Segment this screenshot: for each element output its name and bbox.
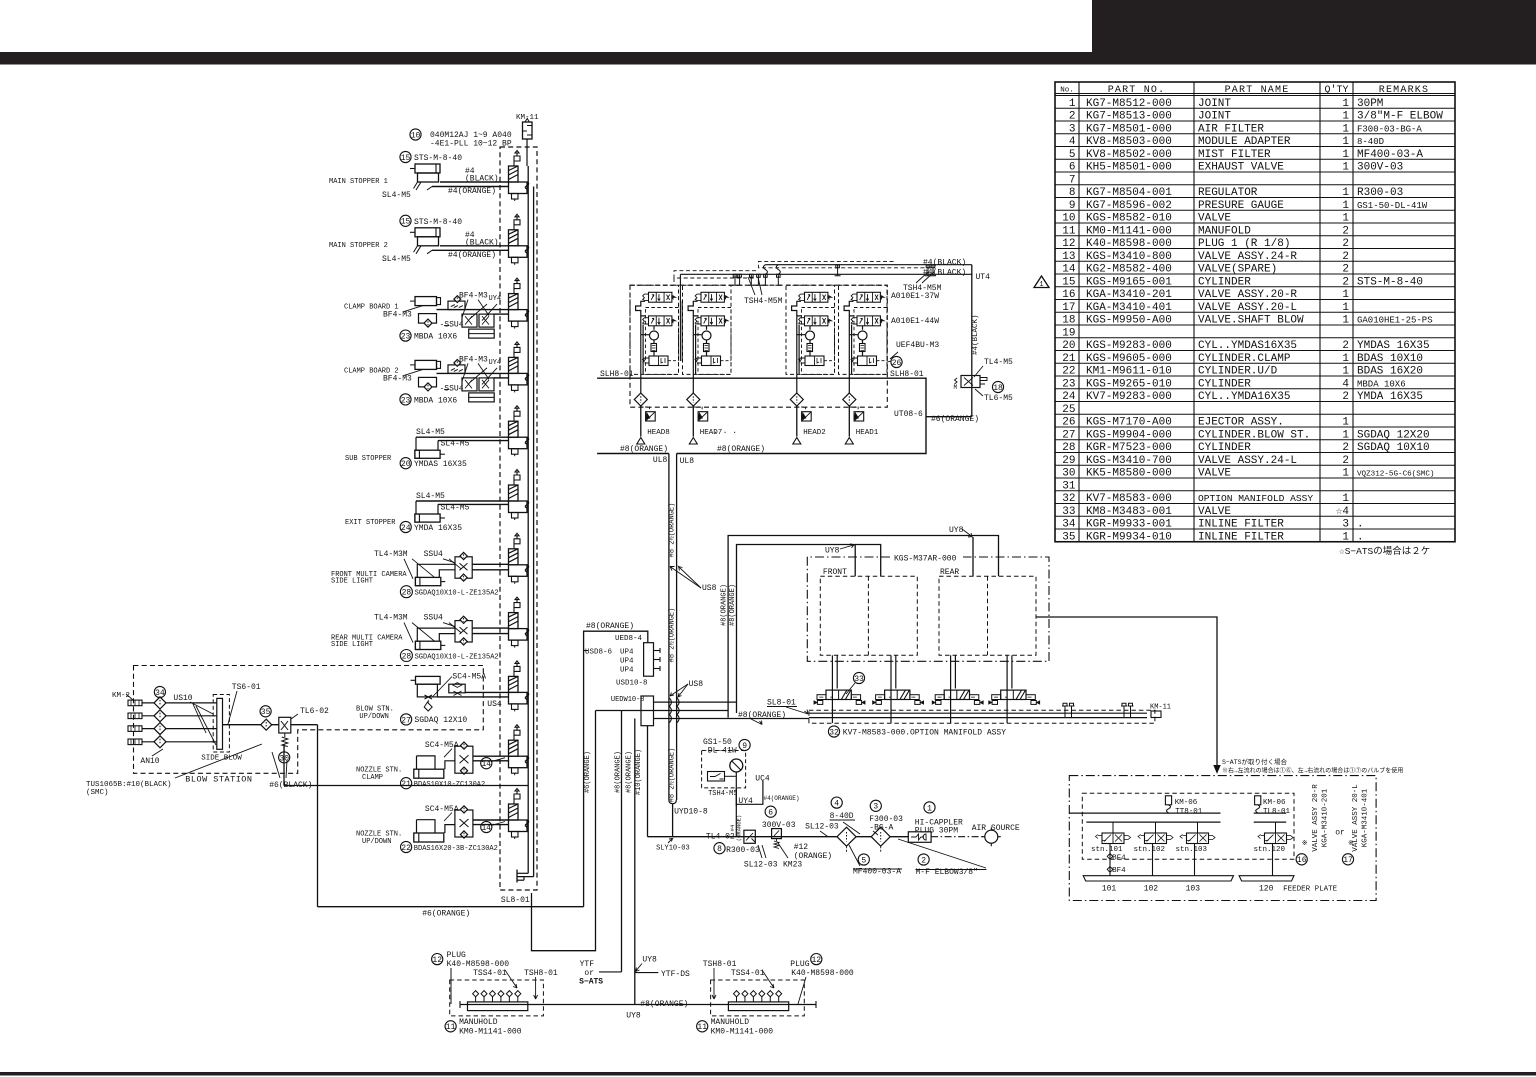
- svg-text:MANUHOLD: MANUHOLD: [711, 1018, 750, 1027]
- svg-text:REMARKS: REMARKS: [1379, 85, 1429, 96]
- manifold stud 1: [475, 997, 477, 1002]
- stn.101 drop: [1109, 844, 1111, 876]
- svg-text:#4(BLACK): #4(BLACK): [923, 259, 966, 268]
- svg-text:UP4: UP4: [620, 666, 634, 674]
- HEAD2 exhaust triangle: [793, 438, 801, 445]
- svg-text:UL8: UL8: [653, 456, 668, 465]
- svg-text:stn.120: stn.120: [1254, 846, 1286, 854]
- svg-text:2: 2: [1342, 455, 1349, 467]
- line manifold to TL6-02: [223, 724, 279, 726]
- svg-text:12: 12: [811, 956, 821, 965]
- svg-text:23: 23: [401, 396, 411, 405]
- svg-text:VALVE: VALVE: [1198, 213, 1231, 225]
- svg-text:4: 4: [834, 799, 839, 808]
- svg-text:KGS-M9165-001: KGS-M9165-001: [1086, 276, 1172, 288]
- svg-text:KK5-M8580-000: KK5-M8580-000: [1086, 468, 1172, 480]
- svg-text:UY4: UY4: [489, 295, 502, 303]
- svg-text:1: 1: [1342, 187, 1349, 199]
- svg-text:1: 1: [1342, 149, 1349, 161]
- svg-text:10: 10: [1062, 213, 1075, 225]
- leader lines: [404, 306, 423, 312]
- svg-text:2: 2: [1342, 391, 1349, 403]
- svg-text:CYLINDER.CLAMP: CYLINDER.CLAMP: [1198, 353, 1291, 365]
- svg-text:KGS-M3410-800: KGS-M3410-800: [1086, 251, 1172, 263]
- svg-text:FEEDER PLATE: FEEDER PLATE: [1283, 886, 1338, 894]
- HEAD8 inner dashed box: [646, 308, 679, 375]
- S-ATS valve stn.103: [1187, 833, 1209, 844]
- manifold stud 6: [778, 997, 780, 1002]
- SSU-type check unit: [455, 810, 473, 837]
- svg-text:OPTION MANIFOLD ASSY: OPTION MANIFOLD ASSY: [1198, 493, 1313, 504]
- svg-text:#8 2½(ORANGE): #8 2½(ORANGE): [668, 503, 677, 558]
- svg-text:3: 3: [1342, 519, 1349, 531]
- svg-text:REGULATOR: REGULATOR: [1198, 187, 1258, 199]
- svg-text:UY8: UY8: [642, 956, 657, 965]
- svg-text:29: 29: [1062, 455, 1075, 467]
- svg-text:102: 102: [1144, 885, 1159, 894]
- wires to station 9: [465, 691, 508, 693]
- blow inlet fitting 3: [128, 726, 142, 732]
- svg-text:☆4: ☆4: [1336, 506, 1350, 518]
- manifold bar: [468, 1002, 528, 1011]
- svg-text:27: 27: [401, 716, 411, 725]
- svg-text:REAR: REAR: [940, 568, 959, 577]
- svg-text:MBDA 10X6: MBDA 10X6: [414, 333, 457, 342]
- manifold bus line A: [527, 166, 529, 873]
- HEAD2 drop line + check diamond: [790, 393, 803, 406]
- svg-text:KG2-M8582-400: KG2-M8582-400: [1086, 264, 1172, 276]
- cylinder MAIN STOPPER 1 STS-M-8-40: [400, 151, 411, 162]
- svg-text:UEDW10-8: UEDW10-8: [611, 696, 645, 704]
- svg-text:TL4-M5: TL4-M5: [984, 358, 1013, 367]
- svg-text:SL12-03: SL12-03: [744, 861, 778, 870]
- svg-text:UEF4BU-M3: UEF4BU-M3: [896, 341, 939, 350]
- parts table frame: [1055, 82, 1455, 542]
- svg-text:CYLINDER.U/D: CYLINDER.U/D: [1198, 366, 1278, 378]
- svg-text:※: ※: [1302, 840, 1308, 848]
- HEAD2 filter element: [807, 344, 813, 352]
- svg-text:#8(ORANGE): #8(ORANGE): [620, 445, 668, 454]
- svg-text:KM23: KM23: [783, 861, 802, 870]
- S-ATS valve stn.101: [1102, 833, 1124, 844]
- HEAD7 bottom vacuum valve: [702, 356, 721, 366]
- svg-text:K40-M8598-000: K40-M8598-000: [447, 960, 510, 969]
- manifold valve station 7: [509, 533, 529, 584]
- svg-text:4: 4: [1069, 136, 1076, 148]
- svg-text:MBDA 10X6: MBDA 10X6: [1357, 379, 1406, 389]
- svg-text:KM-06: KM-06: [1175, 799, 1198, 807]
- svg-text:#8(ORANGE): #8(ORANGE): [625, 751, 633, 793]
- TSH4-M5M studs: [732, 274, 738, 285]
- svg-text:TL8-01: TL8-01: [1263, 808, 1291, 816]
- stn.103 drop: [1194, 844, 1196, 876]
- svg-text:12: 12: [1062, 238, 1075, 250]
- top black bar: [0, 52, 1536, 65]
- svg-text:(ORANGE): (ORANGE): [794, 852, 832, 861]
- svg-text:9: 9: [742, 742, 747, 751]
- HEAD7 top solenoid valve: [695, 292, 728, 302]
- svg-text:KGS-M37AR-000: KGS-M37AR-000: [894, 555, 957, 564]
- HEAD8 filter square: [641, 407, 650, 412]
- svg-text:MODULE ADAPTER: MODULE ADAPTER: [1198, 136, 1291, 148]
- manifold valve station 5: [509, 406, 529, 457]
- svg-text:28: 28: [1062, 442, 1075, 454]
- manifold bar: [728, 1002, 788, 1011]
- svg-text:SLH8-01: SLH8-01: [600, 370, 634, 379]
- cylinder CLAMP BOARD 1 MBDA 10X6: [415, 297, 437, 306]
- pipe hop wiggles: [669, 698, 672, 707]
- svg-text:KM-11: KM-11: [1150, 704, 1171, 712]
- SSU-type check unit: [455, 746, 473, 773]
- ULB pipe pair #8 2.5(ORANGE): [668, 454, 670, 801]
- svg-text:1: 1: [1342, 417, 1349, 429]
- svg-text:1: 1: [1342, 468, 1349, 480]
- svg-text:SGDAQ10X10-L-ZE135A2: SGDAQ10X10-L-ZE135A2: [415, 590, 499, 598]
- svg-text:USD10-8: USD10-8: [616, 680, 648, 688]
- manifold valve station 8: [509, 597, 529, 648]
- svg-text:KGA-M3410-401: KGA-M3410-401: [1086, 302, 1172, 314]
- svg-text:AIR FILTER: AIR FILTER: [1198, 123, 1264, 135]
- manifold valve station 10: [509, 725, 529, 776]
- feeder plates: [1083, 876, 1233, 881]
- svg-text:7: 7: [1069, 174, 1076, 186]
- svg-text:#6(ORANGE): #6(ORANGE): [584, 751, 592, 793]
- circle 30: [279, 752, 290, 763]
- svg-text:.: .: [1357, 519, 1364, 531]
- manifold stud 4: [500, 997, 502, 1002]
- svg-text:24: 24: [401, 524, 411, 533]
- HI-CAPPLER plug: [924, 802, 935, 813]
- svg-text:PLUG 30PM: PLUG 30PM: [915, 827, 958, 836]
- REAR cells dashed: [939, 576, 1036, 655]
- cylinder body: [414, 769, 444, 778]
- UT08-6 stub to S-ATS: [926, 416, 972, 418]
- svg-text:KG7-M8512-000: KG7-M8512-000: [1086, 98, 1172, 110]
- svg-text:KM8-M3483-001: KM8-M3483-001: [1086, 506, 1172, 518]
- pressure switch: [708, 772, 725, 782]
- svg-text:1: 1: [1342, 429, 1349, 441]
- svg-text:26: 26: [1062, 417, 1075, 429]
- svg-text:22: 22: [1062, 366, 1075, 378]
- svg-text:SIDE BLOW: SIDE BLOW: [201, 755, 242, 763]
- svg-text:KV8-M8503-000: KV8-M8503-000: [1086, 136, 1172, 148]
- head group HEAD7 dashed box: [683, 285, 732, 374]
- svg-text:GA010HE1-25-PS: GA010HE1-25-PS: [1357, 316, 1433, 326]
- S-ATS outer dash-dot box: [1069, 776, 1376, 901]
- svg-text:TSH8-01: TSH8-01: [524, 969, 558, 978]
- KM-06 TL8-01 fitting: [1255, 796, 1261, 805]
- wires to station: [473, 819, 509, 821]
- HEAD2 top solenoid valve: [799, 292, 832, 302]
- HEAD2 internal pipes: [792, 301, 810, 395]
- svg-text:JOINT: JOINT: [1198, 98, 1231, 110]
- svg-text:TS6-01: TS6-01: [232, 683, 261, 692]
- svg-text:11: 11: [1062, 225, 1076, 237]
- svg-text:SC4-M5A: SC4-M5A: [425, 805, 459, 814]
- circle 34 inline filter: [154, 686, 165, 697]
- svg-text:EJECTOR ASSY.: EJECTOR ASSY.: [1198, 417, 1284, 429]
- HEAD2 valve-to-dashed link: [824, 360, 835, 362]
- svg-text:TSH4-M5M: TSH4-M5M: [744, 297, 783, 306]
- svg-text:※右→左流れの場合は①⑥、左→右流れの場合は①⑦のバルブを使: ※右→左流れの場合は①⑥、左→右流れの場合は①⑦のバルブを使用: [1222, 767, 1403, 775]
- svg-text:or: or: [1335, 829, 1345, 838]
- manifold stud 5: [769, 997, 771, 1002]
- svg-text:19: 19: [1062, 327, 1075, 339]
- svg-text:stn.101: stn.101: [1091, 846, 1123, 854]
- svg-text:1: 1: [1342, 531, 1349, 543]
- svg-text:SC4-M5A: SC4-M5A: [452, 673, 486, 682]
- svg-text:#8(ORANGE): #8(ORANGE): [738, 711, 786, 720]
- HEAD1 filter square: [849, 407, 858, 412]
- HEAD1 bottom vacuum valve: [858, 356, 877, 366]
- svg-text:1: 1: [1069, 98, 1076, 110]
- 8-40D module: [831, 797, 842, 808]
- head group HEAD1 dashed box: [839, 285, 888, 374]
- manifold stud 3: [491, 997, 493, 1002]
- svg-text:18: 18: [993, 384, 1003, 393]
- svg-text:KGS-M3410-700: KGS-M3410-700: [1086, 455, 1172, 467]
- svg-text:SL4-M5: SL4-M5: [416, 492, 445, 501]
- 300V-03 exhaust valve: [765, 806, 776, 817]
- svg-text:KV7-M9283-000: KV7-M9283-000: [1086, 391, 1172, 403]
- svg-text:33: 33: [1062, 506, 1075, 518]
- svg-text:1: 1: [1342, 353, 1349, 365]
- svg-text:CYL..YMDA16X35: CYL..YMDA16X35: [1198, 391, 1290, 403]
- svg-text:MANUFOLD: MANUFOLD: [1198, 225, 1251, 237]
- manifold stud 6: [517, 997, 519, 1002]
- svg-text:UL8: UL8: [680, 457, 695, 466]
- svg-text:K40-M8598-000: K40-M8598-000: [1086, 238, 1172, 250]
- svg-text:KGR-M9934-010: KGR-M9934-010: [1086, 531, 1172, 543]
- svg-text:#6(ORANGE): #6(ORANGE): [931, 415, 979, 424]
- svg-text:1: 1: [1342, 123, 1349, 135]
- svg-text:1: 1: [1342, 302, 1349, 314]
- svg-text:HEAD1: HEAD1: [856, 429, 879, 437]
- svg-text:18: 18: [1062, 315, 1075, 327]
- svg-text:15: 15: [401, 154, 411, 163]
- pipe TL6-02 to right and down: [291, 724, 318, 726]
- svg-text:BF4: BF4: [1112, 867, 1126, 875]
- manifold valve station 11: [509, 789, 529, 840]
- cylinder MAIN STOPPER 2 STS-M-8-40: [400, 215, 411, 226]
- manifold valve station 9: [509, 661, 529, 712]
- svg-text:24: 24: [1062, 391, 1076, 403]
- S-ATS feed line: [1036, 617, 1217, 768]
- HEAD1 exhaust triangle: [845, 438, 853, 445]
- svg-text:-SSU4: -SSU4: [440, 384, 464, 393]
- #4(BLACK) rail A: [765, 264, 971, 266]
- svg-text:.: .: [1357, 531, 1364, 543]
- wire pair to station: [440, 181, 509, 183]
- MF400 mist filter: [837, 827, 856, 846]
- svg-text:SIDE LIGHT: SIDE LIGHT: [331, 577, 373, 585]
- svg-text:PLUG: PLUG: [790, 960, 809, 969]
- HEAD7 second solenoid valve: [695, 316, 728, 326]
- #4(BLACK) vertical: [971, 265, 973, 417]
- svg-text:#8(ORANGE): #8(ORANGE): [721, 584, 729, 626]
- option valve 33 at x=953: [950, 655, 952, 723]
- HEAD8 top solenoid valve: [643, 292, 676, 302]
- cylinder CLAMP BOARD 2 MBDA 10X6: [415, 360, 437, 369]
- svg-text:SSU4: SSU4: [424, 550, 443, 559]
- svg-text:SL4-M5: SL4-M5: [382, 255, 411, 264]
- svg-text:BF4: BF4: [1112, 855, 1126, 863]
- svg-text:YTF-DS: YTF-DS: [661, 970, 690, 979]
- US10 leader arrows: [190, 702, 213, 714]
- M-F elbow note: [918, 854, 929, 865]
- svg-text:KM0-M1141-000: KM0-M1141-000: [1086, 225, 1172, 237]
- svg-text:YMDA 16X35: YMDA 16X35: [414, 524, 462, 533]
- wires to station: [472, 627, 508, 629]
- svg-text:5: 5: [1069, 149, 1076, 161]
- head group HEAD8 dashed box: [630, 285, 679, 374]
- bus studs: [1062, 703, 1068, 717]
- heads outer dashed box: [630, 285, 887, 407]
- svg-text:25: 25: [1062, 404, 1075, 416]
- svg-text:UT4: UT4: [976, 273, 991, 282]
- svg-text:SSU4: SSU4: [424, 614, 443, 623]
- HEAD8 filter element: [651, 344, 657, 352]
- option valve 33 at x=1009.5: [1006, 655, 1008, 723]
- blow line 1 with filter diamond: [142, 702, 217, 704]
- svg-text:2: 2: [1069, 111, 1076, 123]
- svg-text:VALVE: VALVE: [1198, 468, 1231, 480]
- svg-text:KG7-M8513-000: KG7-M8513-000: [1086, 111, 1172, 123]
- svg-text:US8: US8: [702, 584, 717, 593]
- svg-text:Q'TY: Q'TY: [1324, 84, 1348, 96]
- svg-text:BF4-M3: BF4-M3: [459, 292, 488, 301]
- manifold valve station 1: [509, 151, 529, 202]
- svg-text:SL12-03: SL12-03: [805, 823, 839, 832]
- HEAD2 second solenoid valve: [799, 316, 832, 326]
- svg-text:2: 2: [1342, 225, 1349, 237]
- svg-text:9: 9: [1069, 200, 1076, 212]
- HEAD1 filter element: [860, 344, 866, 352]
- svg-text:EXHAUST VALVE: EXHAUST VALVE: [1198, 162, 1284, 174]
- svg-text:TL4-M3M: TL4-M3M: [374, 614, 408, 623]
- svg-text:S−ATS: S−ATS: [579, 978, 603, 987]
- svg-text:23: 23: [1062, 378, 1075, 390]
- stn.102 drop: [1152, 844, 1154, 876]
- HEAD1 valve-to-dashed link: [877, 360, 888, 362]
- stud wiggle connectors to rail A: [763, 265, 767, 275]
- HEAD1 top solenoid valve: [851, 292, 884, 302]
- svg-text:SL8-01: SL8-01: [501, 896, 530, 905]
- svg-text:SGDAQ 12X10: SGDAQ 12X10: [414, 716, 467, 725]
- svg-text:22: 22: [401, 844, 411, 853]
- svg-text:300V-03: 300V-03: [1357, 162, 1403, 174]
- blow line 4 with filter diamond: [142, 741, 217, 743]
- svg-text:KM-2: KM-2: [112, 692, 130, 700]
- svg-text:VALVE ASSY.24-L: VALVE ASSY.24-L: [1198, 455, 1297, 467]
- svg-text:F300-03-BG-A: F300-03-BG-A: [1357, 124, 1422, 134]
- KGS-M37AR dash-dot box: [807, 557, 1049, 661]
- svg-text:1: 1: [1342, 111, 1349, 123]
- svg-text:11: 11: [446, 1023, 456, 1032]
- svg-text:No.: No.: [1060, 87, 1074, 95]
- circle 32 caption: [828, 726, 839, 737]
- S-ATS bus lines: [1069, 812, 1220, 814]
- svg-text:-SSU4: -SSU4: [440, 321, 464, 330]
- svg-text:1: 1: [1342, 213, 1349, 225]
- manifold end cap station 12: [516, 870, 518, 883]
- blow line 2 with filter diamond: [142, 715, 217, 717]
- circle 28 front camera: [400, 586, 412, 598]
- svg-text:BF4-M3: BF4-M3: [383, 311, 412, 320]
- HEAD7 valve-to-dashed link: [721, 360, 732, 362]
- svg-text:#8 2½(ORANGE): #8 2½(ORANGE): [668, 748, 677, 803]
- svg-text:UT08-6: UT08-6: [894, 410, 923, 419]
- left manifold labels: [432, 954, 443, 965]
- manifold stud 2: [483, 997, 485, 1002]
- svg-text:14: 14: [481, 760, 491, 769]
- svg-text:2: 2: [1342, 251, 1349, 263]
- svg-text:BDAS16X20-3B-ZC130A2: BDAS16X20-3B-ZC130A2: [414, 845, 498, 853]
- svg-text:KM1-M9611-010: KM1-M9611-010: [1086, 366, 1172, 378]
- SC4-M5A valve: [449, 684, 465, 693]
- UED8-4 block outline: [584, 631, 648, 907]
- svg-text:UP/DOWN: UP/DOWN: [359, 713, 388, 721]
- svg-text:5: 5: [861, 856, 866, 865]
- manifold stud 1: [736, 997, 738, 1002]
- #8 verticals to YTF / manifold: [621, 711, 623, 972]
- svg-text:KG7-M8596-002: KG7-M8596-002: [1086, 200, 1172, 212]
- svg-text:A010E1-44W: A010E1-44W: [891, 317, 939, 326]
- pipe valve down (black): [283, 745, 285, 786]
- svg-text:TSH4-M5: TSH4-M5: [708, 790, 737, 798]
- svg-text:TSS4-01: TSS4-01: [731, 969, 765, 978]
- svg-text:103: 103: [1186, 885, 1201, 894]
- svg-text:PART NAME: PART NAME: [1225, 85, 1290, 96]
- svg-text:MIST FILTER: MIST FILTER: [1198, 149, 1271, 161]
- svg-text:HEAD2: HEAD2: [803, 429, 826, 437]
- svg-text:28: 28: [402, 589, 412, 598]
- svg-text:#8(ORANGE): #8(ORANGE): [640, 1000, 688, 1009]
- blow inlet fitting 4: [128, 739, 142, 745]
- svg-text:UP4: UP4: [620, 657, 634, 665]
- svg-text:SIDE LIGHT: SIDE LIGHT: [331, 641, 373, 649]
- svg-text:A010E1-37W: A010E1-37W: [891, 292, 939, 301]
- svg-text:15: 15: [1062, 276, 1075, 288]
- svg-text:KGR-M7523-000: KGR-M7523-000: [1086, 442, 1172, 454]
- svg-text:VALVE.SHAFT BLOW: VALVE.SHAFT BLOW: [1198, 315, 1304, 327]
- svg-text:35: 35: [1062, 531, 1075, 543]
- svg-text:#8(ORANGE): #8(ORANGE): [717, 445, 765, 454]
- svg-text:(SMC): (SMC): [86, 789, 109, 797]
- svg-text:#8(ORANGE): #8(ORANGE): [586, 622, 634, 631]
- svg-text:UY8: UY8: [825, 547, 840, 556]
- circle 26 ejector: [891, 356, 902, 367]
- svg-text:1: 1: [1342, 200, 1349, 212]
- wires to station: [472, 563, 508, 565]
- pressure gauge dial: [730, 759, 743, 772]
- option valve 33 at x=834.8: [831, 655, 833, 723]
- svg-text:PLUG: PLUG: [447, 951, 466, 960]
- wire pair to station: [437, 309, 509, 311]
- svg-text:VALVE ASSY 20-R: VALVE ASSY 20-R: [1312, 784, 1320, 852]
- svg-text:US10: US10: [173, 694, 192, 703]
- svg-text:JOINT: JOINT: [1198, 111, 1231, 123]
- circle 33: [853, 672, 864, 683]
- SSU4 dual check unit: [455, 621, 472, 642]
- svg-text:PRESURE GAUGE: PRESURE GAUGE: [1198, 200, 1284, 212]
- svg-text:KM0-M1141-000: KM0-M1141-000: [711, 1028, 774, 1037]
- svg-text:KGA-M3410-201: KGA-M3410-201: [1322, 788, 1330, 847]
- svg-text:VALVE: VALVE: [1198, 506, 1231, 518]
- svg-text:8: 8: [1069, 187, 1076, 199]
- HEAD2 inner dashed box: [802, 308, 835, 375]
- svg-text:UY8: UY8: [949, 526, 964, 535]
